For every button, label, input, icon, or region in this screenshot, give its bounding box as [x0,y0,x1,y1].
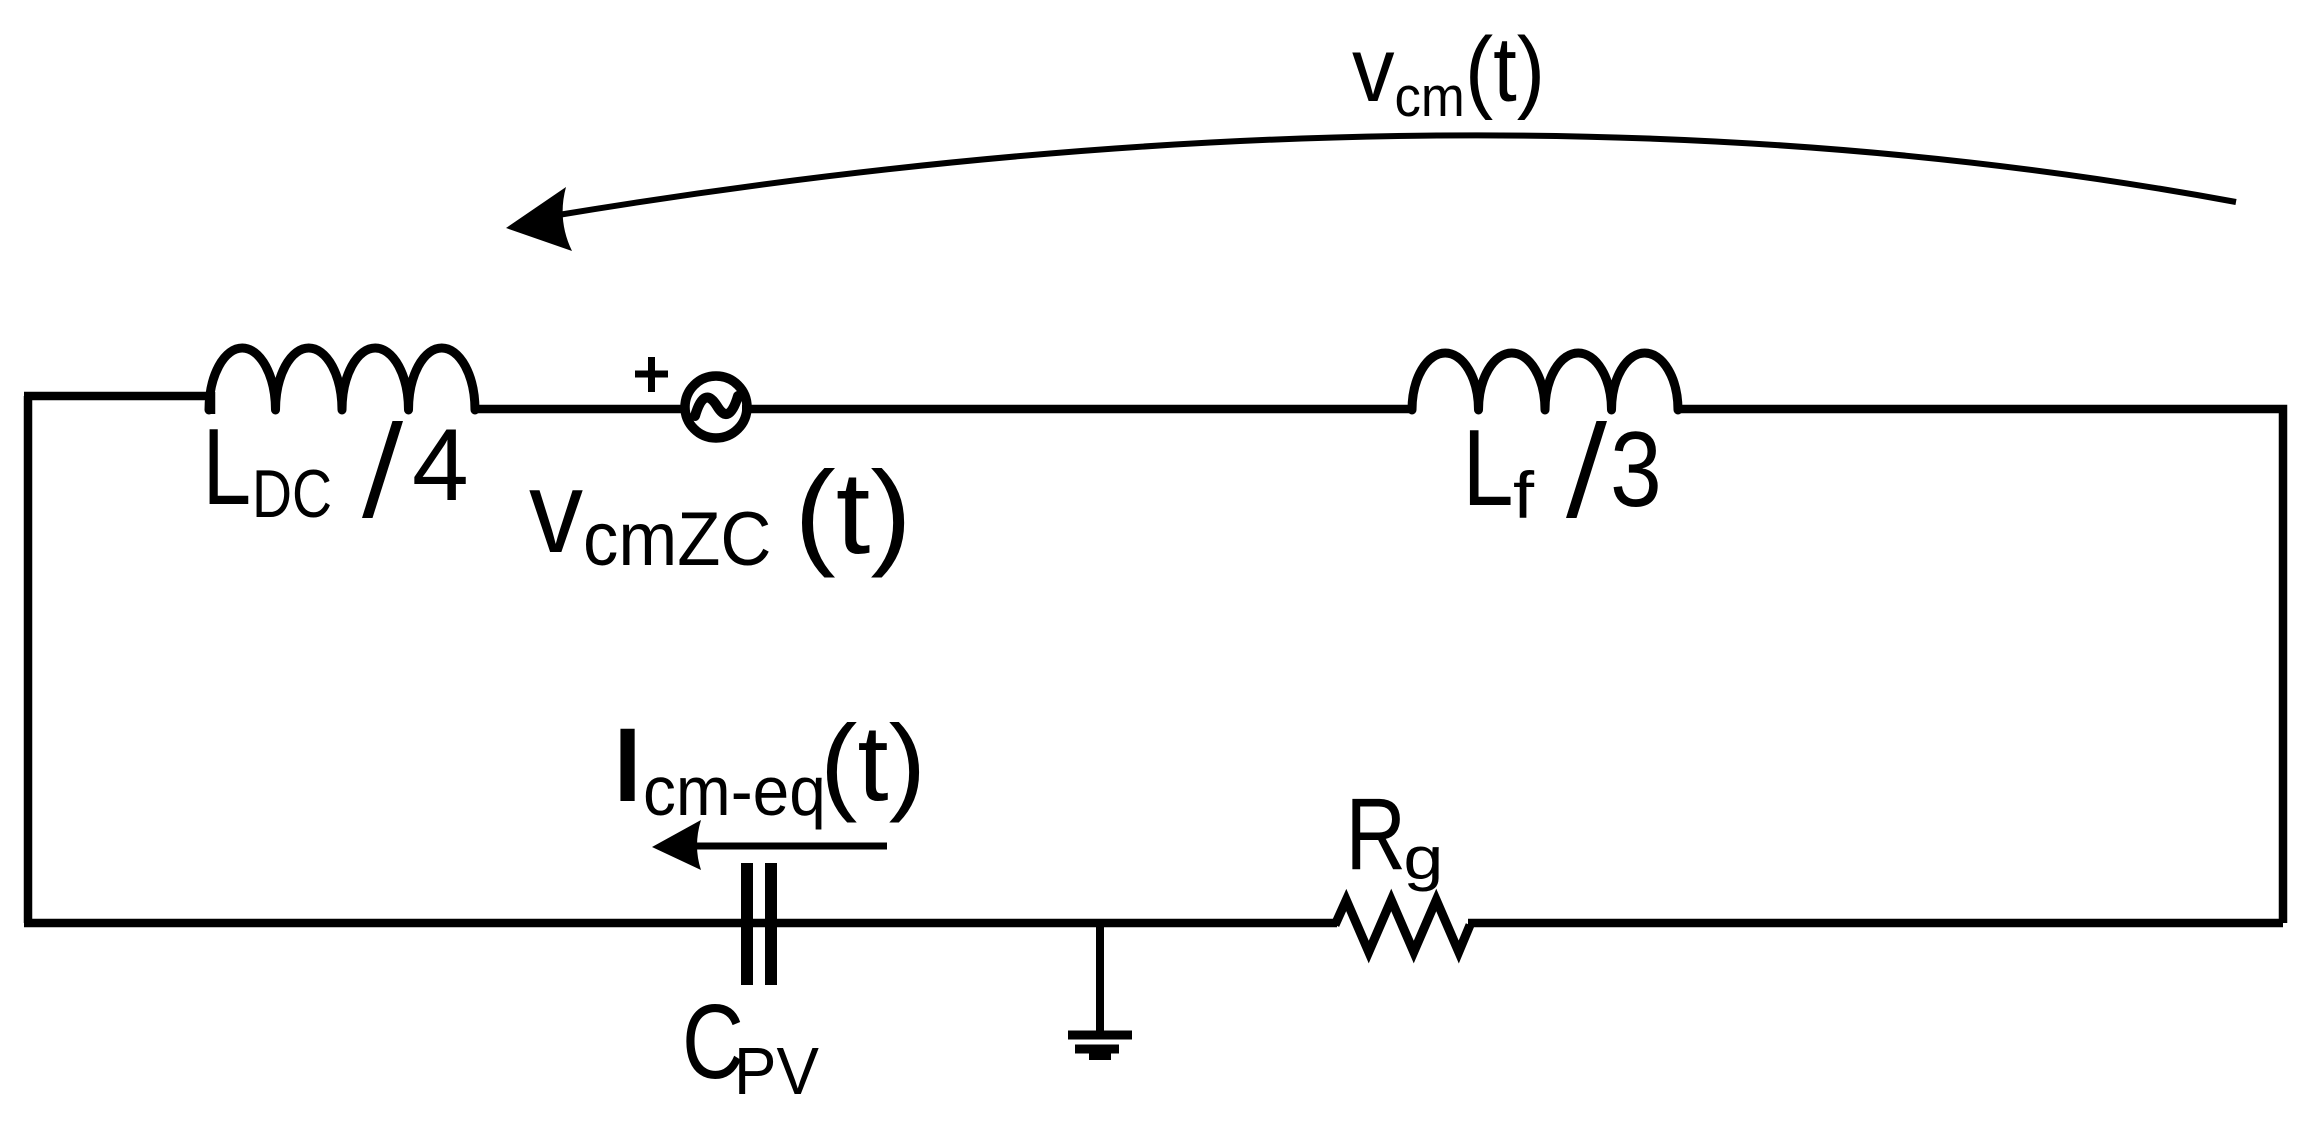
wire left vertical [24,396,33,923]
label C_PV [682,983,744,1101]
ground bar 1 [1068,1031,1132,1040]
capacitor C_PV plates [747,863,771,985]
label L_f [1462,408,1513,529]
label v_cmZC [529,446,583,577]
digit 3 [1610,410,1662,529]
svg-text:(t): (t) [820,703,926,824]
wire top (source to L_f) [742,405,1410,414]
wire top mid (coil to source) [477,405,690,414]
label I_cm-eq [606,706,648,823]
svg-text:L: L [1462,408,1513,529]
svg-text:R: R [1346,776,1407,891]
svg-text:f: f [1513,460,1534,533]
label (t) of I_cm-eq [820,703,926,824]
resistor R_g zigzag [1335,900,1470,952]
wire: curved measurement arc for v_cm(t) [552,135,2236,216]
svg-text:4: 4 [412,408,469,522]
current arrow head [652,820,701,870]
current arrow I_cm-eq shaft [696,843,887,850]
svg-text:cmZC: cmZC [583,497,771,582]
svg-text:L: L [202,405,251,527]
svg-text:DC: DC [252,457,332,533]
wire top-left horizontal [24,392,211,414]
arrowhead of v_cm(t) arc [506,187,572,251]
wire top right + right vertical [1680,409,2283,923]
slash of /4 [362,421,403,518]
AC source V_cmZC circle [685,376,747,438]
ground stem [1096,925,1104,1034]
svg-text:3: 3 [1610,410,1662,529]
svg-text:cm-eq: cm-eq [643,753,826,830]
label R_g [1346,776,1407,891]
digit 4 [412,408,469,522]
plus sign of source [635,357,668,392]
ground bar 2 [1075,1045,1119,1054]
label v_cm(t) [1352,18,1545,129]
label (t) of v_cmZC [794,447,912,578]
inductor L_DC/4 [209,348,475,410]
slash of /3 [1566,421,1607,518]
AC source sine symbol [695,396,738,416]
label L_DC [202,405,251,527]
svg-text:g: g [1403,826,1443,893]
svg-text:vcm(t): vcm(t) [1352,18,1545,129]
svg-text:(t): (t) [794,447,912,578]
wire bottom [24,919,2283,928]
inductor L_f/3 [1412,353,1678,410]
svg-text:PV: PV [734,1034,819,1109]
ground bar 3 [1089,1053,1111,1060]
svg-text:v: v [529,446,583,577]
